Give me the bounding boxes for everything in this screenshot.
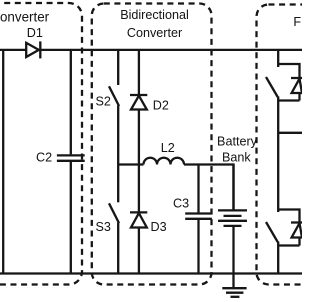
switch Q2 blade xyxy=(266,222,278,242)
wire: lower diode bottom connector xyxy=(278,244,299,246)
svg-text:C3: C3 xyxy=(173,197,189,211)
ground xyxy=(222,288,246,297)
switch S2 xyxy=(109,50,119,165)
wire: inverter leg main vertical (upper contact) xyxy=(277,50,279,67)
wire: lower diode branch connectors xyxy=(278,210,299,223)
inductor L2 xyxy=(144,158,185,165)
wire: upper diode branch connectors xyxy=(278,64,299,78)
svg-text:Bidirectional: Bidirectional xyxy=(120,8,189,22)
svg-text:Bank: Bank xyxy=(222,151,251,165)
wire: inverter leg between switches xyxy=(277,97,279,213)
switch S3 xyxy=(109,165,119,274)
wire: inverter midpoint output xyxy=(278,132,302,134)
diode D1 xyxy=(26,41,40,58)
svg-text:Battery: Battery xyxy=(217,135,258,149)
svg-text:D3: D3 xyxy=(151,220,167,234)
svg-text:C2: C2 xyxy=(36,150,52,164)
section box: full-bridge inverter (dashed, cut off at right) xyxy=(257,5,320,285)
diode D5 xyxy=(291,223,302,246)
diode D4 xyxy=(291,78,302,101)
section box: bidirectional converter (dashed) xyxy=(92,4,212,285)
wire: inverter leg lower contact to bottom rail xyxy=(277,242,279,274)
section box: left converter (dashed, cut off at left) xyxy=(0,3,82,285)
svg-text:Converter: Converter xyxy=(127,26,182,40)
diode D2 xyxy=(130,50,147,165)
svg-text:F: F xyxy=(293,15,301,29)
svg-text:L2: L2 xyxy=(161,141,175,155)
svg-text:Converter: Converter xyxy=(0,10,50,25)
switch Q1 blade xyxy=(266,77,278,97)
diode D3 xyxy=(130,165,147,274)
svg-text:D1: D1 xyxy=(27,26,43,40)
wire: bottom DC rail xyxy=(0,272,302,274)
capacitor C2 xyxy=(57,50,85,274)
wire: S2/D2 leg junction xyxy=(118,163,143,165)
wire: upper diode bottom connector xyxy=(278,99,299,101)
battery bank cells xyxy=(218,165,247,289)
wire: mid rail to battery corner xyxy=(184,165,234,210)
wire: top DC rail (left of D1) xyxy=(0,49,26,51)
svg-text:S2: S2 xyxy=(96,95,111,109)
svg-text:D2: D2 xyxy=(153,99,169,113)
capacitor C3 xyxy=(185,165,212,274)
svg-text:S3: S3 xyxy=(96,220,111,234)
wire: top DC rail (right of D1) xyxy=(40,49,302,51)
wire: left source branch xyxy=(2,50,4,274)
